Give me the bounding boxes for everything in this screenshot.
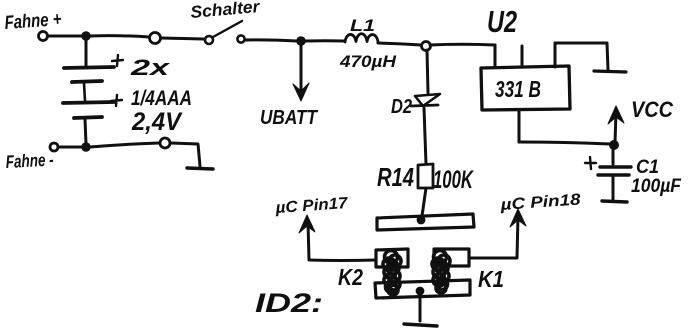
- plus sign cell1: [112, 55, 123, 66]
- svg-text:100K: 100K: [433, 166, 474, 194]
- svg-text:L1: L1: [350, 16, 375, 35]
- svg-text:C1: C1: [636, 157, 659, 178]
- terminal circle right: [160, 138, 170, 148]
- K1 coil winding: [432, 251, 450, 294]
- svg-text:ID2:: ID2:: [255, 288, 323, 318]
- svg-text:µC Pin18: µC Pin18: [499, 191, 581, 214]
- transformer top bar: [377, 214, 474, 230]
- capacitor C1: [598, 167, 631, 175]
- switch throw circle: [237, 35, 244, 42]
- wire U2 to VCC node: [519, 142, 610, 144]
- svg-text:Fahne -: Fahne -: [5, 150, 54, 172]
- wire terminal to ground: [171, 143, 200, 166]
- transformer bottom bar: [375, 280, 470, 298]
- U2 pin3: [554, 43, 557, 67]
- switch pole circle: [205, 36, 213, 44]
- battery cell1 long plate: [64, 67, 114, 68]
- U2 bottom pin: [518, 110, 521, 142]
- resistor R14 box: [418, 164, 433, 188]
- wire L1 to node: [378, 43, 421, 45]
- svg-text:R14: R14: [377, 162, 414, 192]
- wire junction to terminal: [90, 36, 149, 37]
- wire terminal to switch: [161, 38, 204, 39]
- node circle after L1: [422, 42, 431, 51]
- terminal circle Fahne-: [50, 143, 58, 151]
- UBATT arrowhead: [293, 83, 309, 101]
- battery top lead: [85, 40, 88, 66]
- wire Fahne+ to junction: [48, 35, 83, 38]
- svg-text:K1: K1: [478, 266, 504, 292]
- junction battery top: [81, 31, 91, 41]
- capacitor C1 plus sign: [585, 157, 596, 169]
- svg-text:331 B: 331 B: [495, 76, 541, 102]
- svg-text:Schalter: Schalter: [190, 0, 262, 22]
- battery cell2 short plate: [74, 117, 102, 118]
- C1 end terminal bar: [602, 201, 627, 202]
- arrowhead uC Pin17: [299, 215, 315, 233]
- svg-text:UBATT: UBATT: [260, 107, 319, 129]
- wire D2 to R14: [424, 108, 426, 164]
- ground stem bottom: [419, 297, 422, 321]
- battery cell1 short plate: [72, 81, 102, 82]
- junction bottom bar: [416, 287, 425, 296]
- wire Fahne- to junction: [58, 146, 82, 149]
- wire R14 to top bar: [422, 188, 426, 216]
- svg-text:470µH: 470µH: [339, 52, 397, 71]
- svg-text:U2: U2: [487, 4, 517, 39]
- wire node to U2 pin1: [430, 43, 495, 47]
- svg-text:K2: K2: [338, 264, 363, 290]
- battery bottom lead: [85, 119, 86, 144]
- wire junction to terminal: [90, 143, 159, 147]
- K1 coil frame: [434, 249, 469, 266]
- ground bar left: [187, 168, 213, 169]
- wire pin3 to ground: [555, 43, 608, 70]
- wire node to L1: [305, 39, 345, 42]
- K2 coil frame: [376, 249, 408, 267]
- terminal circle mid: [150, 33, 161, 44]
- U2 pin1: [494, 45, 497, 67]
- diode D2: [415, 94, 440, 106]
- plus sign cell2: [111, 95, 122, 106]
- terminal circle Fahne+: [39, 32, 48, 41]
- VCC arrow: [615, 112, 616, 143]
- junction VCC node: [609, 140, 619, 150]
- wire node to D2: [427, 50, 428, 93]
- wire node to C1: [612, 149, 615, 164]
- battery cell2 long plate: [63, 102, 114, 103]
- svg-text:Fahne +: Fahne +: [4, 9, 62, 34]
- junction UBATT node: [296, 36, 306, 46]
- switch blade: [213, 21, 242, 37]
- UBATT arrow stem: [300, 45, 303, 90]
- IC U2 box: [481, 66, 570, 110]
- inductor L1: [345, 34, 378, 43]
- svg-text:D2: D2: [391, 96, 412, 118]
- wire K2 to uC Pin17: [308, 222, 376, 261]
- wire K1 to uC Pin18: [469, 216, 518, 258]
- svg-text:2,4V: 2,4V: [131, 108, 183, 136]
- ground top-right: [594, 71, 626, 72]
- K2 coil winding: [383, 251, 401, 296]
- junction battery bottom: [81, 142, 91, 152]
- svg-text:1/4AAA: 1/4AAA: [131, 87, 192, 110]
- svg-text:2x: 2x: [129, 55, 170, 80]
- wire switch to node UBATT: [245, 40, 297, 41]
- wire C1 to end: [612, 176, 615, 199]
- ground bar bottom: [404, 324, 437, 326]
- svg-text:VCC: VCC: [631, 97, 674, 122]
- arrowhead uC Pin18: [510, 209, 526, 227]
- svg-text:µC Pin17: µC Pin17: [274, 195, 349, 217]
- junction top bar: [417, 216, 426, 225]
- svg-text:100µF: 100µF: [631, 176, 682, 197]
- U2 pin2: [521, 46, 524, 67]
- battery mid link: [84, 83, 85, 101]
